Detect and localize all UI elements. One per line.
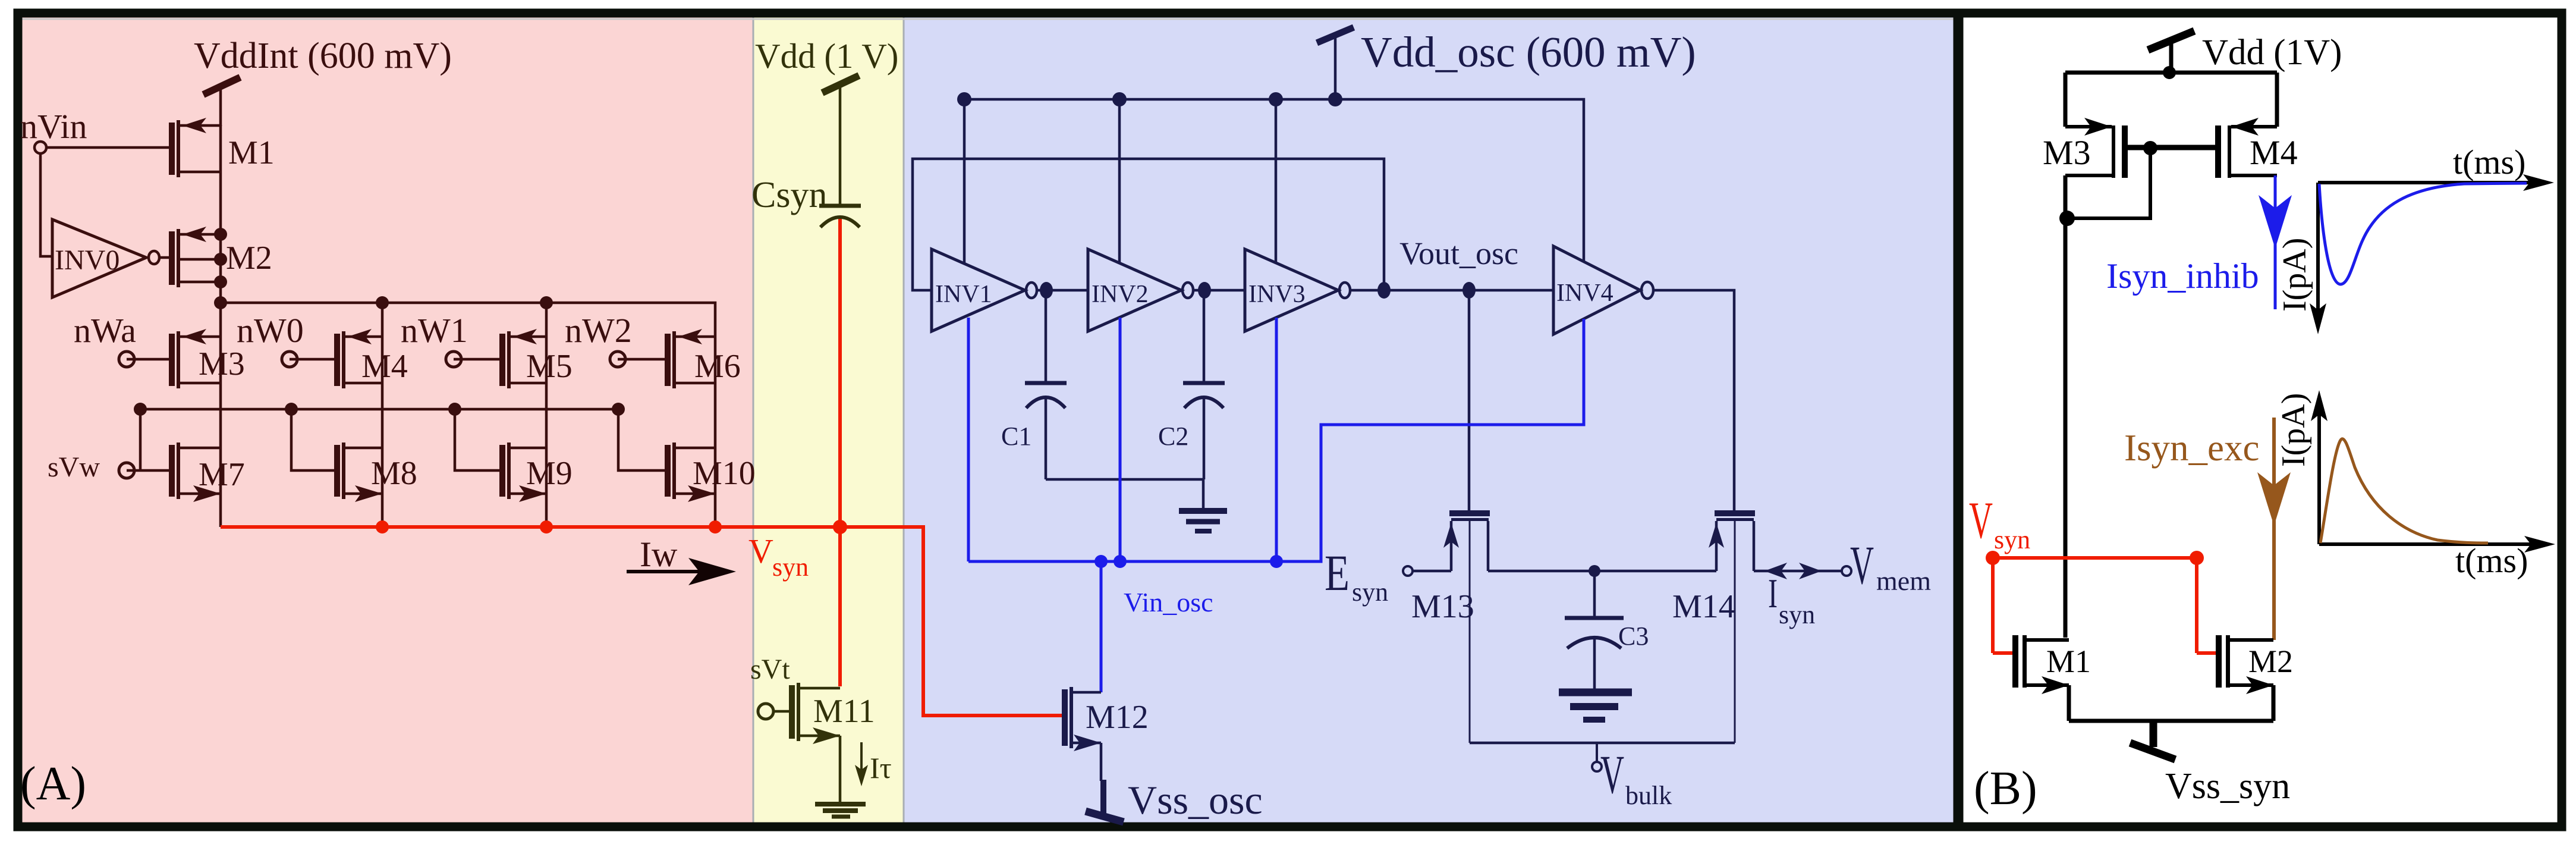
ground ring oscillator caps — [1179, 479, 1227, 531]
wire Vdd_osc supply rail — [964, 99, 1584, 262]
svg-text:(A): (A) — [20, 758, 86, 810]
svg-text:VddInt (600 mV): VddInt (600 mV) — [194, 36, 452, 76]
wire source rail panel B — [2069, 719, 2273, 723]
node Vout_osc junction M13 gate — [1462, 282, 1476, 299]
wire nW1 to M5 gate — [454, 358, 499, 361]
junction dot supply Vdd_osc — [1328, 92, 1342, 106]
transistor M5 — [499, 329, 546, 388]
svg-text:Isyn_inhib: Isyn_inhib — [2106, 256, 2259, 296]
svg-text:M1: M1 — [228, 134, 275, 171]
label Vbulk — [1600, 744, 1672, 810]
curve Isyn_inhib response — [2319, 183, 2527, 284]
svg-text:Vss_syn: Vss_syn — [2165, 766, 2290, 807]
svg-text:Vdd (1 V): Vdd (1 V) — [755, 36, 898, 76]
panel A blue oscillator region — [904, 13, 1954, 823]
wire Isyn_inhib blue arrow — [2259, 175, 2292, 309]
panel A yellow Csyn region — [753, 13, 904, 823]
junction dot Vsyn M9 — [540, 520, 553, 534]
svg-text:Isyn_exc: Isyn_exc — [2124, 427, 2259, 469]
junction dot supply INV3 — [1269, 92, 1283, 106]
chart excitatory axes — [2311, 390, 2555, 553]
svg-text:t(ms): t(ms) — [2455, 541, 2528, 580]
power Vdd_osc supply symbol — [1317, 27, 1354, 99]
wire nW2 to M6 gate — [618, 358, 665, 361]
svg-text:M5: M5 — [526, 348, 573, 385]
label Iw with arrow — [627, 535, 736, 585]
svg-text:V: V — [1969, 492, 1993, 550]
svg-text:INV1: INV1 — [935, 281, 992, 308]
svg-text:M2: M2 — [2248, 644, 2293, 679]
wire M14 to Vmem with Isyn arrows — [1754, 563, 1842, 579]
svg-text:M4: M4 — [2250, 133, 2298, 172]
svg-text:Vin_osc: Vin_osc — [1124, 587, 1213, 617]
wire rail to M3 source — [2064, 73, 2068, 127]
wire drop to M9 gate — [455, 409, 499, 470]
wire drop to M7 gate — [139, 409, 142, 470]
svg-text:syn: syn — [1779, 600, 1815, 629]
wire drop to M8 gate — [291, 409, 334, 470]
svg-text:Vdd_osc (600 mV): Vdd_osc (600 mV) — [1361, 28, 1696, 76]
capacitor Csyn — [819, 206, 861, 227]
terminal Esyn — [1403, 566, 1413, 576]
svg-text:Iw: Iw — [640, 535, 678, 574]
svg-text:C2: C2 — [1158, 422, 1188, 451]
svg-text:syn: syn — [1994, 525, 2030, 554]
svg-text:M12: M12 — [1086, 699, 1149, 736]
wire C1 C2 bottom link — [1046, 478, 1203, 481]
net Vsyn panel B — [1993, 558, 2197, 653]
svg-text:M2: M2 — [226, 240, 272, 277]
wire supply to INV1 — [963, 99, 966, 263]
junction dot Vin_osc INV3 — [1270, 555, 1283, 568]
curve Isyn_exc response — [2320, 439, 2488, 543]
wire gate rail M7-M10 — [140, 408, 618, 411]
junction dot supply INV2 — [1112, 92, 1127, 106]
svg-text:Csyn: Csyn — [751, 175, 827, 215]
transistor M1 panel B — [2012, 635, 2069, 694]
net Vsyn red rail — [221, 525, 840, 529]
terminal nVin — [34, 142, 46, 153]
svg-text:Vss_osc: Vss_osc — [1128, 777, 1263, 823]
svg-text:I: I — [1768, 571, 1778, 617]
svg-text:(B): (B) — [1974, 762, 2037, 815]
junction dot gate rail M7 — [134, 403, 147, 416]
power Vdd (1 V) supply symbol — [822, 76, 859, 205]
inverter INV3 — [1245, 249, 1350, 331]
wire Vsyn from Csyn down to M11 drain — [838, 219, 842, 686]
svg-text:I(pA): I(pA) — [2276, 238, 2313, 312]
wire drop to M10 gate — [618, 409, 665, 470]
wire diode connection M3 — [2067, 148, 2150, 218]
junction dots M2 terminals — [214, 228, 227, 309]
terminal sVt — [758, 704, 773, 719]
region boundary pink/yellow — [753, 17, 754, 823]
junction dot gate rail M10 — [612, 403, 625, 416]
svg-text:M9: M9 — [526, 455, 573, 492]
region boundary yellow/blue — [903, 17, 905, 823]
transistor M3 — [169, 329, 221, 388]
junction dot Vsyn M2 — [2190, 551, 2204, 565]
transistor M6 — [665, 329, 715, 388]
label I-tau current arrow — [855, 742, 892, 786]
wire M3 drain to M1 drain — [2064, 175, 2068, 638]
svg-text:M4: M4 — [361, 348, 408, 385]
junction dot INV1 out C1 — [1040, 282, 1053, 299]
svg-text:M8: M8 — [371, 455, 417, 492]
svg-text:V: V — [748, 532, 773, 570]
power Vss_syn symbol — [2130, 721, 2175, 760]
terminal Vbulk — [1592, 743, 1602, 771]
svg-text:V: V — [1600, 744, 1624, 805]
svg-text:M3: M3 — [2043, 133, 2091, 172]
svg-text:nW0: nW0 — [237, 311, 304, 350]
chart inhibitory axes — [2310, 174, 2554, 334]
terminal nW1 — [446, 352, 461, 367]
svg-text:INV0: INV0 — [55, 244, 119, 276]
junction dot gate rail M8 — [285, 403, 298, 416]
wire M4 column — [381, 303, 384, 527]
wire M5 column — [545, 303, 548, 527]
svg-text:C1: C1 — [1001, 422, 1031, 451]
junction dot Vin_osc INV2 — [1114, 555, 1127, 568]
wire M2 source down — [2272, 685, 2276, 721]
svg-text:Vout_osc: Vout_osc — [1399, 236, 1518, 271]
wire INV1 out — [1038, 289, 1088, 292]
junction dot M3 drain — [2059, 211, 2075, 226]
wire M3 M4 gate link — [2127, 145, 2216, 150]
svg-text:V: V — [1850, 535, 1874, 595]
power Vss_osc symbol — [1086, 780, 1124, 822]
junction dot Vsyn M1 — [1986, 551, 2000, 565]
transistor M2 — [169, 227, 221, 287]
wire feedback Vout_osc to INV1 input — [913, 159, 1384, 290]
wire Vsyn to M1 gate — [1993, 651, 2012, 655]
net Vin_osc blue rail — [968, 319, 1584, 561]
svg-text:M13: M13 — [1411, 588, 1474, 625]
junction dot INV2 out C2 — [1198, 282, 1211, 299]
junction dot gate link — [2143, 141, 2157, 155]
transistor M9 — [499, 443, 546, 502]
transistor M12 — [1062, 687, 1101, 751]
junction dot rail1 M4 — [376, 296, 389, 309]
label Vmem — [1850, 535, 1931, 596]
net Vin_osc blue wire INV2 source — [1119, 318, 1122, 561]
svg-text:nVin: nVin — [20, 107, 87, 146]
transistor M13 — [1443, 510, 1490, 743]
wire M12 source to Vss_osc — [1100, 743, 1103, 781]
wire nVin to INV0 input — [40, 153, 52, 256]
wire Esyn to M13 — [1413, 570, 1451, 573]
power Vdd (1V) symbol panel B — [2148, 31, 2194, 79]
svg-text:INV2: INV2 — [1092, 281, 1149, 308]
svg-text:I(pA): I(pA) — [2275, 393, 2312, 467]
capacitor C2 — [1183, 290, 1225, 479]
wire M13 to M14 C3 node — [1488, 570, 1716, 573]
ground C3 — [1559, 638, 1632, 720]
wire M1 source down — [2067, 685, 2071, 721]
wire INV2 out — [1194, 289, 1245, 292]
label Esyn — [1325, 544, 1388, 607]
ground M11 source — [815, 804, 866, 817]
wire Vout_osc to M13 gate — [1468, 290, 1471, 510]
wire Vdd rail panel B — [2065, 71, 2277, 75]
svg-text:INV3: INV3 — [1248, 281, 1306, 308]
label Vsyn panel B — [1969, 492, 2030, 554]
svg-text:syn: syn — [1352, 578, 1388, 607]
terminal nW2 — [610, 352, 625, 367]
transistor M10 — [665, 443, 715, 502]
wire nW0 to M4 gate — [290, 358, 334, 361]
junction dot Vsyn M10 — [709, 520, 722, 534]
wire Isyn_exc brown arrow — [2257, 418, 2291, 640]
svg-text:t(ms): t(ms) — [2453, 143, 2525, 181]
svg-text:M1: M1 — [2046, 644, 2091, 679]
power VddInt supply symbol — [203, 77, 240, 126]
svg-text:Iτ: Iτ — [870, 751, 892, 784]
wire Vsyn to M12 gate — [840, 527, 1063, 716]
wire nWa to M3 gate — [127, 358, 169, 361]
wire Vin_osc to M12 drain — [1100, 561, 1103, 692]
wire M4 source up to rail — [2275, 73, 2279, 127]
svg-text:sVt: sVt — [750, 654, 790, 685]
terminal nW0 — [282, 352, 297, 367]
junction dot rail1 M5 — [540, 296, 553, 309]
transistor M4 — [334, 329, 382, 388]
svg-text:syn: syn — [772, 553, 809, 582]
svg-text:nWa: nWa — [74, 311, 136, 350]
transistor M3 panel B — [2065, 118, 2128, 178]
svg-text:INV4: INV4 — [1556, 280, 1613, 307]
svg-text:M11: M11 — [813, 693, 875, 730]
wire sVw to M7 gate — [127, 469, 169, 472]
inverter INV1 — [932, 249, 1037, 331]
transistor M8 — [334, 443, 382, 502]
svg-text:M6: M6 — [694, 348, 741, 385]
junction dot Vsyn Csyn node — [833, 520, 847, 534]
wire sVt to M11 gate — [773, 710, 789, 713]
wire INV4 out to M14 gate — [1655, 290, 1734, 510]
junction dot Vsyn M8 — [376, 520, 389, 534]
svg-text:nW2: nW2 — [565, 311, 632, 350]
wire supply to INV2 — [1118, 99, 1121, 263]
svg-text:M3: M3 — [199, 346, 245, 382]
wire INV3 out Vout_osc — [1351, 289, 1553, 292]
transistor M1 — [169, 118, 221, 177]
wire Vsyn to M2 gate — [2197, 651, 2216, 655]
panel separator A/B — [1954, 13, 1964, 827]
svg-text:mem: mem — [1876, 566, 1931, 596]
terminal Vmem — [1842, 566, 1851, 576]
net Vin_osc blue wire INV1 source — [967, 318, 970, 561]
junction dot Vin_osc M12 — [1094, 555, 1108, 568]
svg-text:E: E — [1325, 544, 1350, 601]
label Vsyn — [748, 532, 809, 582]
inverter INV4 — [1553, 246, 1653, 334]
label Isyn — [1768, 571, 1815, 629]
svg-text:sVw: sVw — [48, 451, 100, 483]
svg-text:M10: M10 — [693, 455, 756, 492]
wire top rail to weight transistors — [221, 303, 715, 337]
svg-text:M7: M7 — [199, 456, 245, 493]
transistor M11 — [789, 683, 840, 744]
wire nVin to M1 gate — [46, 146, 169, 149]
svg-text:M14: M14 — [1672, 588, 1735, 625]
wire bulk rail — [1470, 742, 1735, 745]
terminal sVw — [119, 463, 134, 478]
svg-text:bulk: bulk — [1625, 781, 1672, 810]
capacitor C3 — [1565, 571, 1624, 648]
svg-text:nW1: nW1 — [401, 311, 468, 350]
inverter INV2 — [1088, 249, 1193, 331]
wire M11 source to ground — [839, 736, 842, 802]
transistor M4 panel B — [2215, 118, 2277, 178]
capacitor C1 — [1025, 290, 1067, 479]
svg-text:Vdd (1V): Vdd (1V) — [2202, 33, 2342, 73]
svg-text:C3: C3 — [1618, 622, 1649, 651]
wire supply to INV3 — [1275, 99, 1278, 262]
transistor M2 panel B — [2216, 635, 2273, 694]
junction dot C3 — [1589, 565, 1600, 577]
inner frame shading line — [22, 18, 1954, 20]
wire M6 column — [714, 337, 717, 527]
net Vin_osc blue wire INV3 source — [1275, 318, 1278, 561]
node Vout_osc junction feedback — [1377, 282, 1391, 299]
junction dot supply INV1 — [957, 92, 971, 106]
transistor M7 — [169, 443, 221, 502]
wire main column M1-M7 drain chain — [219, 125, 222, 527]
junction dot gate rail M9 — [448, 403, 461, 416]
transistor M14 — [1709, 510, 1755, 743]
terminal nWa — [119, 352, 134, 367]
inverter INV0 — [52, 219, 169, 297]
panel A pink weight-cell region — [18, 13, 753, 823]
